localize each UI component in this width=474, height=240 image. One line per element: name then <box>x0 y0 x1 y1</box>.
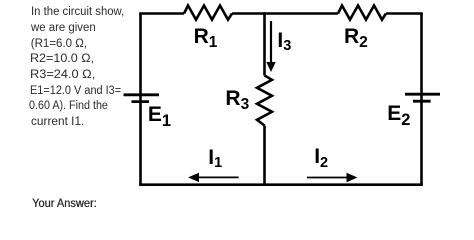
wire: middle branch upper <box>263 12 266 75</box>
wire: middle branch lower <box>263 126 266 187</box>
label I1 <box>208 148 222 170</box>
label I2 <box>314 147 328 169</box>
wire: bottom rail <box>139 183 423 186</box>
battery E1 <box>124 95 160 102</box>
wire: top rail middle segment <box>232 12 338 15</box>
label R1 <box>194 27 218 49</box>
battery E2 <box>405 94 440 101</box>
label I3 <box>277 31 291 53</box>
current arrow I3 <box>266 21 275 72</box>
label R2 <box>344 27 368 49</box>
label E1 <box>148 105 171 126</box>
resistor R2 <box>338 6 386 20</box>
wire: left branch vertical <box>139 14 142 185</box>
label R3 <box>225 89 249 111</box>
label E2 <box>387 104 410 125</box>
your answer label <box>32 198 97 210</box>
wire: top rail right segment <box>386 12 423 15</box>
resistor R1 <box>184 6 232 20</box>
current arrow I2 <box>307 173 358 182</box>
current arrow I1 <box>188 173 239 182</box>
resistor R3 <box>257 76 272 126</box>
wire: top rail left segment <box>139 12 184 15</box>
problem statement text <box>31 5 126 131</box>
wire: right branch vertical <box>420 14 423 185</box>
